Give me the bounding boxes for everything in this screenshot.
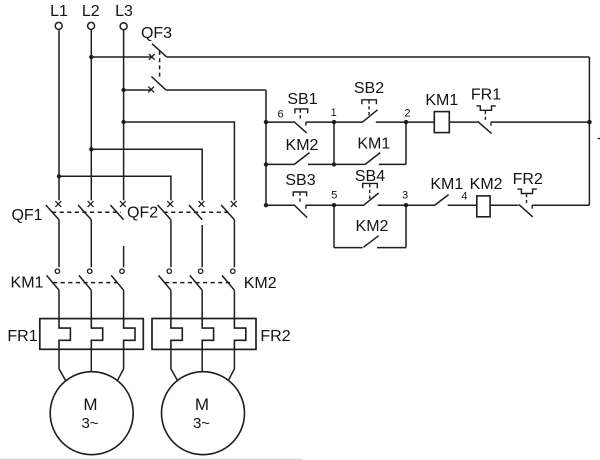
wire FR2 to motor M2 left [171, 349, 178, 381]
node junction right rail rung1 [587, 120, 592, 125]
svg-text:KM2: KM2 [286, 137, 319, 154]
wire QF2 pole1 to KM2 [170, 220, 172, 267]
wire FR1 to motor M1 right [118, 349, 124, 380]
svg-text:KM1: KM1 [430, 176, 463, 193]
wire rail to SB3 [266, 204, 294, 206]
breaker QF3 pole 1 [89, 55, 93, 59]
contactor KM1 main contact pole 2 [88, 269, 92, 273]
wire node5 to KM2 latch contact [334, 247, 363, 249]
breaker QF2 pole 3 [231, 201, 237, 207]
wire L3 vertical [123, 30, 125, 201]
svg-text:M: M [83, 395, 97, 414]
wire node 2 vertical [405, 122, 407, 164]
wire QF2 pole3 to KM2 [233, 220, 235, 267]
wire QF1 pole1 to KM1 [58, 220, 60, 267]
node junction left rail rung1 [264, 120, 268, 124]
svg-text:M: M [195, 395, 209, 414]
wire control left rail [265, 90, 267, 205]
motor M2 [162, 372, 245, 455]
breaker QF1 pole 2 [88, 201, 94, 207]
wire KM2 aux to node 1 vertical [308, 163, 334, 165]
node junction left rail parallel row [264, 162, 268, 166]
wire KM1 interlock to coil KM2 [448, 204, 477, 206]
svg-text:KM1: KM1 [357, 136, 390, 153]
wire FR2 to motor M2 middle [201, 349, 203, 371]
wire tap L2 to QF2 pole2 [89, 147, 93, 151]
svg-text:FR1: FR1 [7, 328, 37, 345]
wire KM2 pole1 to FR2 [170, 290, 172, 318]
wire QF3 pole1 to right rail [167, 56, 590, 58]
wire L1 vertical [58, 30, 60, 201]
wire KM2 latch to node 3 vertical [377, 247, 406, 249]
wire control right rail [588, 57, 590, 205]
wire node 5 vertical [333, 205, 335, 247]
thermal relay FR1 heater element 1 [59, 319, 70, 350]
svg-text:L3: L3 [115, 3, 133, 20]
wire KM1 pole3 to FR1 [123, 290, 125, 318]
wire FR1 contact to right rail [491, 121, 589, 123]
thermal relay FR1 heater element 2 [91, 319, 102, 350]
svg-text:QF3: QF3 [141, 25, 172, 42]
wire FR2 to motor M2 right [229, 349, 235, 380]
svg-text:L1: L1 [50, 3, 68, 20]
svg-text:KM2: KM2 [470, 176, 503, 193]
breaker QF1 pole 3 [120, 201, 126, 207]
thermal relay FR2 box [152, 319, 256, 350]
contactor KM2 mechanical link [165, 282, 232, 284]
contactor KM1 main contact pole 1 [55, 269, 59, 273]
svg-text:6: 6 [277, 108, 283, 120]
breaker QF2 pole 2 [199, 201, 205, 207]
breaker QF2 pole 1 [167, 201, 173, 207]
svg-text:2: 2 [404, 107, 410, 119]
wire L2 vertical [90, 30, 92, 201]
svg-text:5: 5 [331, 189, 337, 201]
svg-text:SB4: SB4 [355, 168, 385, 185]
svg-text:3~: 3~ [193, 415, 210, 432]
wire node 1 to SB2 [334, 121, 362, 123]
wire SB3 to node 5 [306, 204, 334, 206]
contactor KM2 main contact pole 3 [231, 269, 235, 273]
breaker QF3 mechanical link [159, 51, 161, 79]
svg-text:KM2: KM2 [356, 218, 389, 235]
breaker QF1 mechanical link [52, 211, 121, 213]
contactor KM2 main contact pole 1 [167, 269, 171, 273]
wire SB2 to node 2 [376, 121, 406, 123]
wire node 1 to KM1 aux contact [334, 163, 365, 165]
wire coil KM1 to FR1 contact [449, 121, 477, 123]
wire QF3 pole2 to left rail [166, 89, 266, 91]
wire node 3 vertical [405, 205, 407, 247]
svg-text:3~: 3~ [81, 415, 98, 432]
motor M1 [50, 372, 133, 455]
wire rail to SB1 [266, 121, 294, 123]
contactor KM2 main contact pole 2 [198, 269, 202, 273]
wire QF1 pole3 to KM1 [123, 246, 125, 267]
thermal relay FR1 heater element 3 [124, 319, 135, 350]
wire SB1 to node 1 [306, 121, 334, 123]
thermal relay FR1 box [40, 319, 144, 350]
wire FR1 to motor M1 middle [90, 349, 92, 372]
scan artifact bottom bar [0, 459, 303, 460]
wire KM1 pole2 to FR1 [90, 290, 92, 318]
wire QF2 pole2 to KM2 [201, 225, 203, 267]
node 3 [404, 203, 408, 207]
wire SB4 to node 3 [378, 204, 406, 206]
svg-text:3: 3 [402, 189, 408, 201]
svg-text:FR2: FR2 [260, 328, 290, 345]
wire node 2 to coil KM1 [406, 121, 434, 123]
breaker QF2 mechanical link [164, 211, 230, 213]
wire node 1 vertical [333, 122, 335, 164]
svg-text:QF2: QF2 [127, 205, 158, 222]
node 5 [332, 203, 336, 207]
wire tap L1 to QF2 pole1 [57, 174, 61, 178]
wire FR1 to motor M1 left [59, 349, 66, 381]
edge tick right margin [598, 138, 600, 140]
svg-text:FR1: FR1 [471, 86, 501, 103]
node 2 [404, 120, 408, 124]
wire KM1 aux to node 2 vertical [379, 163, 406, 165]
wire KM2 pole2 to FR2 [201, 290, 203, 318]
contactor KM1 mechanical link [53, 282, 121, 284]
wire tap L3 to QF2 pole3 [121, 120, 125, 124]
breaker QF1 pole 1 [55, 201, 61, 207]
breaker QF3 pole 2 [121, 88, 125, 92]
node 1 [332, 120, 336, 124]
thermal relay FR2 heater element 1 [171, 319, 182, 350]
svg-text:KM1: KM1 [11, 274, 44, 291]
svg-text:QF1: QF1 [11, 207, 42, 224]
wire FR2 contact to right rail [532, 204, 589, 206]
svg-text:4: 4 [461, 191, 467, 203]
wire node 3 to KM1 interlock [406, 204, 434, 206]
svg-text:SB2: SB2 [354, 80, 384, 97]
svg-text:SB3: SB3 [285, 172, 315, 189]
svg-text:1: 1 [331, 107, 337, 119]
wire rail to KM2 aux contact [266, 163, 294, 165]
svg-text:KM2: KM2 [244, 275, 277, 292]
node junction left rail rung2 [264, 203, 268, 207]
svg-text:FR2: FR2 [513, 171, 543, 188]
contactor KM1 main contact pole 3 [120, 269, 124, 273]
wire QF1 pole2 to KM1 [90, 220, 92, 267]
wire node 5 to SB4 [334, 204, 364, 206]
thermal relay FR2 heater element 3 [234, 319, 245, 350]
wire KM2 pole3 to FR2 [233, 290, 235, 318]
svg-text:SB1: SB1 [287, 91, 317, 108]
wire coil KM2 to FR2 contact [490, 204, 518, 206]
svg-text:L2: L2 [82, 3, 100, 20]
wire KM1 pole1 to FR1 [58, 290, 60, 318]
svg-text:KM1: KM1 [425, 92, 458, 109]
thermal relay FR2 heater element 2 [202, 319, 213, 350]
